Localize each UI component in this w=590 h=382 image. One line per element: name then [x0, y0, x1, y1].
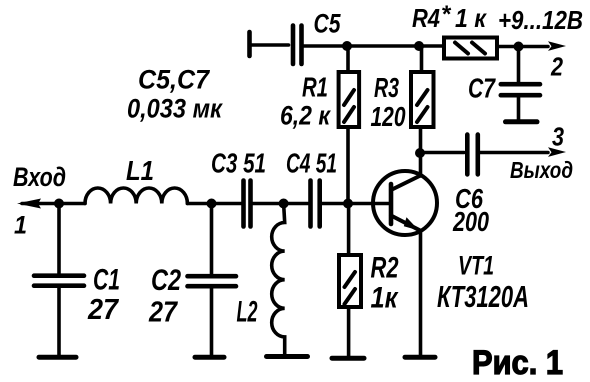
capacitor C5: [293, 26, 302, 65]
ground C2: [195, 355, 224, 360]
node R1 top: [342, 41, 352, 51]
transistor VT1: [373, 171, 437, 235]
svg-text:+9...12В: +9...12В: [498, 5, 583, 35]
supply arrow terminal 2: [519, 41, 567, 51]
svg-text:6,2 к: 6,2 к: [280, 101, 331, 131]
svg-text:L1: L1: [126, 155, 154, 186]
svg-text:VT1: VT1: [458, 250, 494, 280]
svg-text:R2: R2: [371, 252, 399, 285]
resistor R1: [339, 47, 360, 204]
wire R4 to supply node: [497, 45, 519, 49]
svg-text:КТ3120А: КТ3120А: [437, 279, 529, 314]
ground C7: [506, 119, 538, 124]
svg-text:R3: R3: [374, 72, 399, 103]
ground R2: [332, 356, 364, 361]
svg-text:C2: C2: [151, 264, 181, 297]
wire emitter: [419, 231, 423, 355]
svg-text:C4 51: C4 51: [286, 148, 337, 179]
svg-text:R1: R1: [302, 72, 328, 103]
capacitor C6: [420, 135, 478, 175]
svg-text:1к: 1к: [371, 282, 400, 315]
svg-text:2: 2: [550, 52, 563, 82]
capacitor C2: [188, 204, 237, 356]
svg-text:200: 200: [452, 206, 489, 237]
svg-text:1 к: 1 к: [455, 3, 488, 33]
wire top rail: [304, 44, 444, 48]
node R3 top: [414, 41, 424, 51]
svg-text:C1: C1: [93, 264, 120, 297]
label R4* 1к: [412, 1, 488, 33]
svg-text:120: 120: [371, 101, 406, 132]
node input: [54, 199, 64, 209]
wire input node to L1: [59, 202, 85, 206]
ground emitter: [405, 355, 435, 360]
inductor L1: [85, 188, 187, 204]
capacitor C4: [284, 181, 348, 227]
svg-text:1: 1: [14, 212, 27, 240]
svg-text:Выход: Выход: [510, 157, 573, 183]
wire L1 to node C2: [187, 202, 211, 206]
svg-text:Рис. 1: Рис. 1: [472, 344, 563, 382]
capacitor C3: [244, 181, 284, 227]
svg-text:C3 51: C3 51: [211, 148, 266, 179]
ground L2: [267, 354, 308, 359]
wire base node to transistor: [348, 202, 389, 206]
node collector: [415, 148, 425, 158]
label C5,C7 0,033 мк: [127, 65, 223, 124]
output arrow terminal 3: [480, 147, 566, 157]
resistor R3: [411, 46, 434, 153]
terminal bar C5 left: [250, 32, 289, 56]
node C2: [207, 199, 217, 209]
svg-text:0,033 мк: 0,033 мк: [127, 94, 223, 124]
svg-text:C5: C5: [314, 9, 342, 39]
capacitor C1: [34, 204, 84, 356]
svg-text:R4: R4: [412, 3, 440, 33]
wire node C2 to C3: [212, 202, 242, 206]
svg-text:C7: C7: [468, 73, 496, 104]
svg-text:3: 3: [552, 122, 564, 152]
input arrow terminal 1: [17, 199, 59, 209]
svg-text:L2: L2: [237, 296, 258, 329]
resistor R4: [444, 38, 497, 59]
svg-text:*: *: [441, 1, 452, 28]
svg-text:C5,C7: C5,C7: [138, 65, 211, 95]
wire collector: [419, 153, 423, 176]
resistor R2: [339, 204, 361, 357]
svg-text:Вход: Вход: [13, 162, 66, 192]
svg-text:27: 27: [87, 294, 120, 326]
capacitor C7: [501, 47, 540, 120]
node L2: [279, 199, 289, 209]
node C7 top: [514, 42, 524, 52]
ground C1: [39, 355, 76, 360]
node base: [343, 199, 353, 209]
svg-text:27: 27: [148, 297, 178, 329]
inductor L2: [272, 204, 285, 355]
